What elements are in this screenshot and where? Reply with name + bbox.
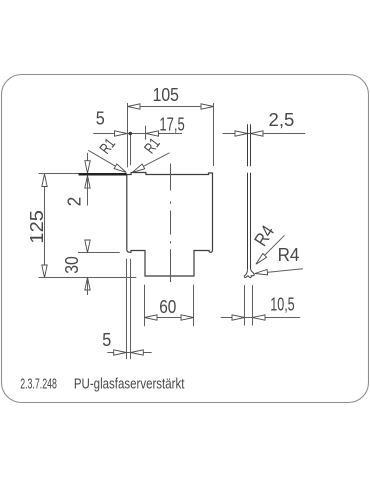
dimension 2 upper arrow — [85, 161, 90, 174]
blade foot with R4 fillets — [244, 269, 254, 277]
dimension 5 bottom left arrow — [114, 350, 127, 355]
R1 leader right line — [135, 153, 169, 171]
dimension 125 line — [44, 174, 46, 278]
dimension 30 lower arrow — [85, 278, 90, 291]
blade lower segment — [248, 173, 251, 269]
dimension 10,5 left arrow — [232, 315, 245, 320]
R4 leader lower line — [258, 269, 303, 273]
dimension 105 right arrow — [201, 104, 214, 109]
dimension 105 line — [128, 106, 214, 108]
dimension 2,5 right arrow — [251, 131, 264, 136]
R1 leader left arrow — [114, 164, 128, 175]
drawing sheet border — [2, 75, 369, 403]
centerline (dash-dot) — [170, 164, 172, 283]
svg-text:5: 5 — [102, 329, 111, 350]
dimension 2 upper arrow line — [87, 153, 89, 171]
extension line x=213.5 (dim 105 right) — [213, 103, 215, 166]
dimension 125 top extension line — [39, 173, 79, 175]
dimension 30 upper arrow — [85, 240, 90, 253]
dimension 2 lower arrow — [85, 176, 90, 189]
svg-text:2: 2 — [64, 197, 85, 207]
extension lines for 10,5 — [245, 285, 253, 325]
dimension 125 top arrow — [42, 174, 47, 187]
svg-text:10,5: 10,5 — [270, 293, 295, 314]
R4 leader upper arrow — [254, 253, 267, 266]
R4 leader lower arrow — [255, 270, 268, 277]
svg-text:60: 60 — [159, 296, 176, 317]
dimension 10,5 line — [221, 317, 301, 319]
bold insert line (2 thick) at top-left — [79, 173, 127, 176]
dimension 2 lower line — [87, 178, 89, 206]
extension lines for 60 — [145, 285, 194, 327]
blade (2.5 wide fin) upper segment — [248, 124, 251, 166]
dimension 5 bottom line — [107, 352, 151, 354]
R4 leader upper line — [258, 235, 284, 261]
extension line x=127.5 (dim 105 left / dim 5) — [127, 103, 129, 167]
extension line for 30 (top) — [78, 252, 120, 254]
dimension 10,5 right arrow — [253, 315, 266, 320]
svg-text:R1: R1 — [141, 135, 163, 157]
dimension 125 bottom arrow — [42, 265, 47, 278]
dimension 60 left arrow — [145, 315, 158, 320]
dimension 105 left arrow — [128, 104, 141, 109]
R1 leader left line — [88, 150, 123, 171]
svg-text:2,5: 2,5 — [269, 109, 295, 130]
extension line x=130.5 (dim 5 right) — [130, 135, 132, 166]
svg-text:2.3.7.248: 2.3.7.248 — [20, 377, 57, 393]
svg-text:PU-glasfaserverstärkt: PU-glasfaserverstärkt — [74, 377, 184, 393]
dimension 60 right arrow — [181, 315, 194, 320]
dimension 2,5 left arrow — [235, 131, 248, 136]
svg-text:30: 30 — [61, 256, 82, 274]
svg-text:17,5: 17,5 — [159, 114, 184, 135]
dimension 5 bottom right arrow — [131, 350, 144, 355]
svg-text:R1: R1 — [97, 136, 119, 158]
svg-text:R4: R4 — [278, 244, 300, 265]
svg-text:5: 5 — [96, 107, 105, 128]
dimension 5 arrow (points right) — [115, 131, 128, 136]
bottom fin extension lines (5 wide) — [127, 259, 131, 360]
dimension 17,5 arrow (points left) — [146, 131, 159, 136]
extension line x=145.5 (dim 17,5 right) — [145, 126, 147, 140]
svg-text:125: 125 — [26, 210, 47, 244]
part profile outline — [127, 173, 213, 277]
dimension 30 lower line — [87, 280, 89, 295]
R1 leader right arrow — [131, 164, 145, 175]
dimension 5 dot terminator — [129, 132, 133, 136]
dimension 5/17,5 shared line — [93, 133, 182, 135]
svg-text:105: 105 — [153, 84, 179, 105]
dimension 30 upper line — [87, 240, 89, 250]
dimension 125 bottom extension line — [39, 277, 137, 279]
dimension 60 line — [145, 317, 194, 319]
dimension 2,5 line (top right) — [222, 133, 305, 135]
